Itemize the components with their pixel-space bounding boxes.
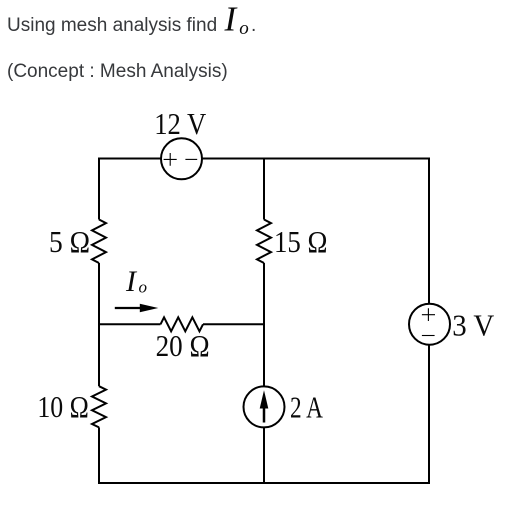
svg-text:10 Ω: 10 Ω	[37, 390, 89, 424]
svg-text:o: o	[239, 18, 249, 39]
wire middle horizontal left	[99, 323, 161, 325]
svg-text:I: I	[125, 265, 138, 298]
svg-text:I: I	[224, 0, 239, 38]
voltage source V 12V circle	[161, 138, 202, 179]
3V plus sign	[422, 308, 435, 321]
svg-text:5 Ω: 5 Ω	[49, 225, 90, 259]
resistor R 15ohm zigzag	[257, 220, 271, 264]
svg-text:2 A: 2 A	[290, 391, 323, 425]
resistor R 5ohm zigzag	[92, 220, 106, 264]
svg-text:.: .	[251, 15, 256, 36]
3V minus sign	[422, 335, 435, 337]
12V minus sign	[185, 158, 197, 160]
svg-text:15 Ω: 15 Ω	[274, 225, 328, 259]
12V plus sign	[164, 153, 177, 166]
svg-text:12 V: 12 V	[154, 107, 206, 141]
wire middle vertical lower	[263, 263, 265, 483]
current source I 2A circle	[244, 386, 285, 427]
resistor R 20ohm zigzag	[161, 317, 204, 331]
wire outer loop (top, right, bottom, left stubs)	[99, 159, 429, 484]
svg-text:o: o	[139, 278, 148, 297]
svg-text:Using mesh analysis find: Using mesh analysis find	[7, 15, 217, 36]
I_o arrow shaft	[115, 307, 148, 309]
svg-text:3 V: 3 V	[452, 308, 494, 342]
voltage source V 3V circle	[409, 304, 450, 345]
2A arrow head	[260, 390, 269, 408]
resistor R 10ohm zigzag	[92, 386, 106, 427]
wire left middle segment	[98, 263, 100, 386]
I_o arrow head	[140, 304, 159, 313]
2A arrow shaft	[263, 404, 266, 423]
wire middle horizontal right	[203, 323, 264, 325]
svg-text:20 Ω: 20 Ω	[156, 329, 210, 363]
svg-text:(Concept : Mesh Analysis): (Concept : Mesh Analysis)	[7, 61, 228, 82]
wire middle vertical upper	[263, 159, 265, 220]
